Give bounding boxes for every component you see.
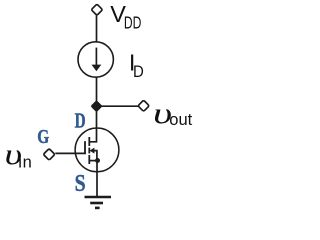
terminal vout (open diamond)	[138, 100, 149, 111]
svg-text:G: G	[37, 126, 49, 148]
label I_D	[129, 50, 144, 82]
svg-text:D: D	[75, 109, 86, 133]
MOSFET gate bar	[84, 141, 86, 154]
MOSFET body arrow (points left)	[90, 148, 97, 161]
svg-text:S: S	[75, 171, 86, 197]
svg-text:DD: DD	[124, 12, 141, 32]
MOSFET channel top dash	[88, 137, 90, 146]
current source I1 (circle with down arrow)	[78, 42, 113, 77]
svg-text:D: D	[133, 62, 144, 81]
MOSFET source connect	[89, 160, 97, 162]
wire: current source to drain node	[96, 77, 98, 103]
terminal VDD (open diamond)	[91, 4, 102, 15]
ground symbol	[85, 197, 112, 208]
MOSFET M1 body circle	[75, 128, 119, 172]
wire: source lead down to ground	[96, 161, 98, 198]
wire: node down to MOSFET drain	[89, 110, 96, 142]
terminal vin (open diamond)	[43, 149, 55, 161]
svg-text:out: out	[169, 111, 192, 129]
wire: node to vout terminal	[100, 105, 138, 107]
body-source junction dot	[95, 158, 100, 163]
MOSFET channel bottom dash	[88, 155, 90, 164]
label v_in	[5, 138, 33, 172]
MOSFET channel middle dash	[88, 148, 90, 154]
node: drain junction dot	[91, 101, 102, 112]
wire: VDD terminal to current source	[96, 15, 98, 42]
label V_DD	[110, 1, 141, 33]
svg-text:in: in	[18, 154, 32, 172]
label v_out	[153, 97, 192, 130]
wire: gate lead from vin terminal to gate bar	[55, 152, 86, 154]
